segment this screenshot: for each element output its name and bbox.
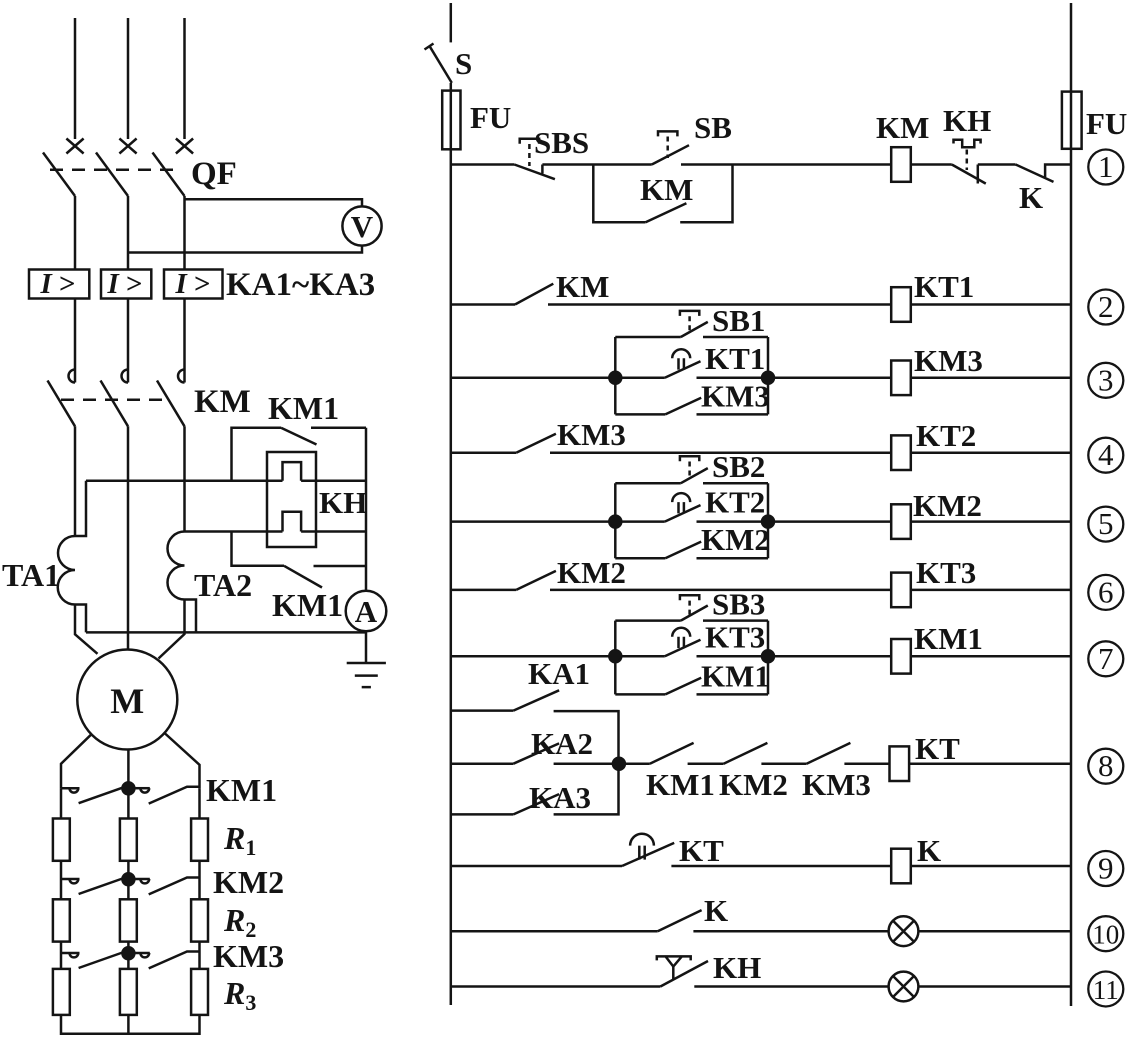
wire left rail top — [450, 3, 453, 42]
button SB1 blade — [681, 322, 708, 337]
svg-text:KT1: KT1 — [914, 269, 974, 304]
contact KT3 left wire — [615, 655, 665, 658]
wire col a R2-KM3 — [60, 942, 63, 969]
coil KT1 — [891, 287, 911, 322]
fuse FU right — [1062, 92, 1082, 149]
svg-text:KM1: KM1 — [268, 390, 339, 426]
wire col c KM1-R1 — [198, 788, 201, 818]
wire KM1 bottom bypass right — [314, 565, 367, 568]
contact KM3 aux blade — [516, 434, 556, 453]
contact KA1 blade — [513, 690, 559, 710]
wire L1 QF-KA1 — [74, 196, 77, 270]
contact KM2 aux blade — [516, 571, 556, 590]
wire col c KM2-R2 — [198, 879, 201, 899]
contact KT1 blade — [665, 361, 701, 378]
stop button SBS head — [520, 139, 539, 144]
svg-text:KA3: KA3 — [529, 780, 591, 815]
resistor R2 c — [191, 899, 208, 941]
wire L1 KA-KM — [74, 299, 77, 383]
rotor contact KM3 right fixed — [140, 953, 149, 957]
wire TA2 secondary tap — [185, 600, 197, 633]
button SB2 stem — [688, 462, 691, 478]
wire rung5 group-coil — [768, 520, 891, 523]
svg-text:KM2: KM2 — [213, 864, 284, 900]
stop button SBS stem — [528, 144, 531, 166]
contact KM self-hold right — [680, 165, 732, 223]
wire rung11 lamp-rail — [918, 985, 1071, 988]
button SB1 right wire — [703, 336, 768, 339]
contact K NC blade — [1016, 165, 1054, 182]
rung number 1 — [1088, 150, 1123, 185]
wire rung3 coil-rail — [911, 377, 1071, 380]
wire voltmeter branch bottom — [128, 246, 362, 253]
svg-text:SB1: SB1 — [712, 303, 765, 338]
rotor contact KM2 right blade — [149, 878, 200, 895]
svg-text:QF: QF — [191, 156, 237, 192]
svg-text:R1: R1 — [223, 820, 256, 860]
svg-text:TA2: TA2 — [194, 567, 252, 603]
contact K blade — [658, 910, 702, 931]
ammeter A — [346, 591, 387, 632]
wire L3 QF-KA3 — [183, 196, 186, 270]
contactor KM pole 3 fixed contact — [178, 370, 184, 383]
button SB2 blade — [681, 468, 708, 483]
wire rotor lead c — [165, 733, 200, 788]
coil KT3 — [891, 573, 911, 608]
wire KM1 top bypass left — [232, 428, 282, 481]
contact KA3 blade — [513, 794, 559, 814]
svg-text:KT3: KT3 — [705, 619, 765, 654]
wire rung2 KM-coil — [548, 303, 891, 306]
contact KA2 left wire — [451, 762, 514, 765]
svg-text:R3: R3 — [223, 975, 256, 1015]
current transformer TA1 — [58, 536, 75, 605]
resistor R2 a — [53, 899, 70, 941]
rotor contact KM1 left fixed — [70, 788, 79, 792]
svg-text:K: K — [704, 893, 728, 928]
start button SB blade — [652, 145, 689, 164]
wire rung1 KH-K — [978, 163, 1016, 166]
wire rung4 rail-KM3 — [451, 451, 516, 454]
thermal relay KH box — [267, 452, 316, 547]
svg-text:4: 4 — [1098, 437, 1114, 472]
wire col b R2-R3 — [127, 942, 130, 969]
svg-text:K: K — [1019, 180, 1043, 215]
contact KM3 right wire — [697, 413, 769, 416]
group left vertical rung5 — [614, 483, 617, 558]
start button SB stem — [666, 137, 669, 159]
button SB3 blade — [681, 606, 708, 621]
wire L3 feeder — [183, 18, 186, 139]
svg-text:SB: SB — [694, 110, 732, 145]
current relay KA2 box — [101, 270, 151, 299]
rung number 8 — [1088, 749, 1123, 784]
wire rung6 coil-rail — [911, 589, 1071, 592]
svg-text:KM1: KM1 — [272, 587, 343, 623]
wire col a R1-KM2 — [60, 861, 63, 879]
wire rung10 K-lamp — [693, 930, 888, 933]
coil KT — [890, 746, 910, 781]
junction dot KA bus — [613, 758, 625, 770]
svg-text:I >: I > — [39, 268, 75, 300]
contact KT2 left wire — [615, 520, 665, 523]
delay symbol KT — [630, 834, 654, 860]
group right vertical rung3 — [767, 337, 770, 414]
junction dot right rung5 — [762, 516, 774, 528]
svg-text:KM: KM — [194, 384, 251, 420]
svg-text:8: 8 — [1098, 748, 1114, 783]
wire bypass bus vertical — [365, 428, 368, 591]
wire col a KM2-R2 — [60, 879, 63, 899]
current transformer TA2 — [168, 532, 185, 600]
wire rung10 lamp-rail — [918, 930, 1071, 933]
contact KH blade rung11 — [660, 961, 708, 987]
svg-text:FU: FU — [1086, 106, 1127, 141]
svg-text:KT2: KT2 — [916, 418, 976, 453]
contact KM1 top bypass blade — [281, 428, 317, 445]
svg-text:6: 6 — [1098, 574, 1114, 609]
stop button SBS blade — [514, 165, 555, 180]
contact KM3 left wire — [615, 413, 665, 416]
button SB2 left wire — [615, 482, 681, 485]
wire rung8 KM1-KM2 — [688, 762, 724, 765]
svg-text:KM2: KM2 — [557, 555, 626, 590]
thermal contact KH seat — [977, 165, 980, 184]
svg-text:KT: KT — [915, 731, 960, 766]
wire L3 to motor — [159, 600, 185, 659]
svg-text:KM1: KM1 — [206, 772, 277, 808]
motor M — [77, 650, 177, 750]
rotor contact KM2 mid stub — [134, 878, 150, 881]
coil KM2 — [891, 504, 911, 539]
contact KM1 blade — [665, 678, 701, 695]
wire rung4 coil-rail — [911, 451, 1071, 454]
contact KA3 left wire — [451, 813, 514, 816]
contactor KM pole 3 blade — [157, 381, 185, 427]
wire L2 KA-KM — [127, 299, 130, 383]
svg-text:KH: KH — [943, 103, 991, 138]
wire KM1 bottom bypass left — [232, 532, 285, 566]
contact KM self-hold left — [593, 165, 645, 223]
contact KM2 blade — [665, 542, 701, 559]
wire col c R1-KM2 — [198, 861, 201, 879]
rotor contact KM1 right fixed — [140, 788, 149, 792]
junction dot right rung3 — [762, 372, 774, 384]
contact KA1 left wire — [451, 709, 514, 712]
rung number 5 — [1088, 507, 1123, 542]
group left vertical rung3 — [614, 337, 617, 414]
junction dot left rung5 — [609, 516, 621, 528]
contactor KM pole 1 fixed contact — [69, 370, 76, 383]
junction dot KM2 — [122, 873, 134, 885]
contact KT3 right wire — [697, 655, 769, 658]
coil KM — [891, 147, 911, 182]
svg-text:M: M — [110, 681, 144, 721]
wire rung8 KM2-KM3 — [761, 762, 806, 765]
contact KA2 right wire — [554, 762, 619, 765]
coil KM1 — [891, 639, 911, 674]
rotor contact KM1 left stub — [61, 787, 80, 790]
resistor R1 b — [120, 819, 137, 861]
svg-text:S: S — [455, 46, 472, 81]
contact KM3 aux blade — [807, 743, 851, 764]
group left vertical rung7 — [614, 621, 617, 695]
contact K NC seat — [1045, 165, 1071, 178]
rotor contact KM1 mid stub — [134, 787, 150, 790]
wire TA return — [86, 631, 366, 634]
circuit breaker QF pole 1 contact mark — [66, 139, 83, 154]
wire KM1 top bypass right — [311, 426, 366, 429]
svg-text:7: 7 — [1098, 641, 1114, 676]
wire rung5 rail-group — [451, 520, 616, 523]
wire rung3 rail-group — [451, 377, 616, 380]
contact KT2 blade — [665, 505, 701, 521]
contact KM1 bottom bypass blade — [284, 566, 322, 588]
junction dot right rung7 — [762, 650, 774, 662]
rung number 4 — [1088, 438, 1123, 473]
rung number 7 — [1088, 641, 1123, 676]
wire L1 feeder — [74, 18, 77, 139]
wire rung7 coil-rail — [911, 655, 1071, 658]
svg-text:KH: KH — [319, 485, 367, 520]
wire L1 below KM — [74, 426, 77, 536]
contact KM2 aux blade — [724, 743, 768, 764]
group right vertical rung7 — [767, 621, 770, 695]
rotor contact KM1 right blade — [149, 787, 200, 804]
rotor contact KM2 left fixed — [70, 879, 79, 883]
wire col c R2-KM3 — [198, 942, 201, 969]
junction dot left rung3 — [609, 372, 621, 384]
wire rung11 KH-lamp — [694, 985, 888, 988]
delay symbol KT2 — [672, 493, 690, 513]
wire heater line A — [86, 479, 366, 482]
wire rung2 rail-KM — [451, 303, 515, 306]
svg-text:KM2: KM2 — [719, 767, 788, 802]
delay symbol KT1 — [672, 349, 690, 369]
wire ammeter-ground — [365, 631, 368, 663]
wire rung9 rail-KT — [451, 865, 622, 868]
current relay KA1 box — [29, 270, 89, 299]
rotor contact KM3 mid stub — [134, 952, 150, 955]
contactor KM pole 2 fixed contact — [122, 370, 128, 383]
fuse FU left — [442, 91, 460, 150]
right rail — [1070, 149, 1073, 1006]
wire rung5 coil-rail — [911, 520, 1071, 523]
contact KM2 left wire — [615, 557, 665, 560]
button SB3 right wire — [703, 619, 768, 622]
contact KA3 right wire — [554, 764, 619, 815]
resistor R1 c — [191, 819, 208, 861]
svg-text:11: 11 — [1093, 975, 1119, 1005]
rotor contact KM2 left stub — [61, 878, 80, 881]
rung number 6 — [1088, 575, 1123, 610]
contact KA1 right wire — [554, 711, 619, 764]
thermal contact KH blade — [952, 165, 986, 184]
KH heater element 2 — [283, 512, 302, 532]
rotor contact KM2 left blade — [79, 879, 123, 895]
KM linkage dashed — [61, 398, 170, 401]
svg-text:KA1~KA3: KA1~KA3 — [226, 267, 375, 303]
wire rung10 rail-K — [451, 930, 658, 933]
lamp rung10 — [889, 916, 919, 946]
QF linkage dashed — [50, 168, 174, 171]
circuit breaker QF pole 1 blade — [43, 153, 75, 197]
contact KM2 right wire — [697, 557, 769, 560]
svg-text:2: 2 — [1098, 289, 1114, 324]
contact KM1 left wire — [615, 693, 665, 696]
button SB1 left wire — [615, 336, 681, 339]
svg-text:SB2: SB2 — [712, 449, 765, 484]
rotor contact KM1 left blade — [79, 788, 123, 804]
svg-text:FU: FU — [470, 100, 511, 135]
stop button SBS seat — [541, 165, 544, 174]
wire rung11 rail-KH — [451, 985, 661, 988]
button SB2 right wire — [703, 482, 768, 485]
wire rung4 KM3-coil — [550, 451, 891, 454]
wire rung1 rail-SBS — [451, 163, 515, 166]
junction dot KM1 — [122, 782, 134, 794]
svg-text:KM3: KM3 — [914, 343, 983, 378]
circuit breaker QF pole 3 blade — [153, 153, 185, 197]
junction dot KM3 — [122, 947, 134, 959]
svg-text:SBS: SBS — [534, 125, 589, 160]
wire rung6 rail-KM2 — [451, 589, 516, 592]
svg-text:KM3: KM3 — [557, 417, 626, 452]
svg-text:SB3: SB3 — [712, 587, 765, 622]
button SB3 head — [680, 595, 699, 600]
svg-text:KM: KM — [876, 110, 929, 145]
switch S blade — [430, 46, 452, 83]
svg-text:R2: R2 — [223, 902, 256, 942]
rung number 11 — [1088, 972, 1123, 1007]
contact KT1 right wire — [697, 377, 769, 380]
rotor contact KM3 left fixed — [70, 953, 79, 957]
svg-text:KM: KM — [640, 172, 693, 207]
contact KM3 blade — [665, 398, 701, 415]
svg-text:KM3: KM3 — [213, 938, 284, 974]
wire L3 KA-KM — [183, 299, 186, 383]
contactor KM pole 1 blade — [48, 381, 76, 427]
wire col b R1-R2 — [127, 861, 130, 900]
circuit breaker QF pole 3 contact mark — [176, 139, 193, 154]
wire L2 feeder — [127, 18, 130, 139]
resistor R3 b — [120, 969, 137, 1015]
svg-text:KM1: KM1 — [646, 767, 715, 802]
button SB3 stem — [688, 601, 691, 615]
coil KT2 — [891, 435, 911, 470]
contact KM1 right wire — [697, 693, 769, 696]
coil KM3 — [891, 361, 911, 396]
svg-text:KM3: KM3 — [802, 767, 871, 802]
contact KT2 right wire — [697, 520, 769, 523]
svg-text:I >: I > — [174, 268, 210, 300]
wire rung9 coil-rail — [911, 865, 1071, 868]
svg-text:KT3: KT3 — [916, 555, 976, 590]
resistor R1 a — [53, 819, 70, 861]
wire rung6 KM2-coil — [550, 589, 891, 592]
current relay KA3 box — [164, 270, 223, 299]
circuit breaker QF pole 2 blade — [96, 153, 128, 197]
wire rung8 dot-KM1 — [619, 762, 650, 765]
svg-text:KA2: KA2 — [531, 726, 593, 761]
start button SB head — [658, 131, 677, 136]
wire col a KM1-R1 — [60, 788, 63, 818]
wire rung8 coil-rail — [909, 762, 1071, 765]
wire L2 QF-KA2 — [127, 196, 130, 270]
wire rung1 SB-coil — [681, 163, 891, 166]
wire rotor lead b — [127, 750, 130, 819]
thermal KH actuator rung11 — [657, 956, 691, 979]
svg-text:10: 10 — [1092, 920, 1119, 950]
wire L3 below KM — [183, 426, 186, 531]
junction dot left rung7 — [609, 650, 621, 662]
svg-text:KT: KT — [679, 833, 724, 868]
voltmeter V — [342, 206, 381, 245]
wire rung7 rail-group — [451, 655, 616, 658]
resistor R2 b — [120, 899, 137, 941]
svg-text:KM1: KM1 — [701, 658, 770, 693]
wire right rail top — [1070, 3, 1073, 92]
contact KT3 blade — [665, 640, 701, 657]
wire rotor lead a — [61, 734, 91, 788]
svg-text:KM3: KM3 — [701, 378, 770, 413]
button SB1 stem — [688, 316, 691, 331]
wire L1 to motor — [75, 605, 98, 654]
rung number 3 — [1088, 363, 1123, 398]
button SB3 left wire — [615, 619, 681, 622]
svg-text:KT2: KT2 — [705, 485, 765, 520]
wire rung7 group-coil — [768, 655, 891, 658]
svg-text:K: K — [917, 833, 941, 868]
wire rung1 coil-KH — [911, 163, 952, 166]
thermal contact KH stem — [966, 150, 969, 171]
coil K — [891, 849, 911, 884]
thermal contact KH actuator — [954, 140, 981, 147]
svg-text:5: 5 — [1098, 506, 1114, 541]
contact KM1 aux blade — [650, 743, 694, 764]
wire voltmeter branch top — [185, 199, 363, 206]
contact KM self-hold blade — [646, 203, 687, 222]
svg-text:1: 1 — [1098, 149, 1114, 184]
svg-text:KT1: KT1 — [705, 341, 765, 376]
button SB1 head — [680, 311, 699, 316]
contact KM aux blade — [515, 284, 553, 305]
rung number 10 — [1088, 916, 1123, 951]
wire star point — [61, 1015, 200, 1034]
svg-text:A: A — [355, 594, 378, 629]
wire S-FU — [450, 83, 453, 91]
contact KT1 left wire — [615, 377, 665, 380]
delay symbol KT3 — [672, 628, 690, 648]
svg-text:KM2: KM2 — [701, 522, 770, 557]
rotor contact KM2 right fixed — [140, 879, 149, 883]
rung number 2 — [1088, 290, 1123, 325]
svg-text:KM: KM — [556, 269, 609, 304]
svg-text:V: V — [351, 209, 374, 244]
svg-text:TA1: TA1 — [2, 557, 60, 593]
rotor contact KM3 left stub — [61, 952, 80, 955]
contact KT right wire — [671, 865, 891, 868]
svg-text:KA1: KA1 — [528, 656, 590, 691]
svg-text:3: 3 — [1098, 362, 1114, 397]
wire rung2 coil-rail — [911, 303, 1071, 306]
wire heater line B — [185, 530, 367, 533]
svg-text:KH: KH — [713, 950, 761, 985]
lamp rung11 — [889, 972, 919, 1002]
svg-text:KM2: KM2 — [913, 488, 982, 523]
svg-text:9: 9 — [1098, 851, 1114, 886]
wire rung3 group-coil — [768, 377, 891, 380]
